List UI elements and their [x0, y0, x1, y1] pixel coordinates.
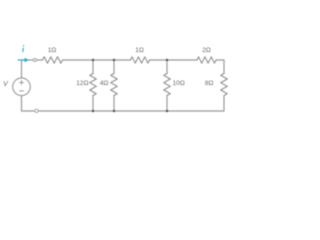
- resistor R6 10ohm vertical zigzag: [164, 74, 171, 96]
- wire top left vertical from node to source: [21, 60, 23, 78]
- wire 12ohm top stub: [92, 60, 94, 74]
- resistor R2 1ohm horizontal zigzag: [131, 57, 150, 63]
- wire top between R3 and right corner: [216, 59, 224, 61]
- wire right vertical bottom stub: [223, 96, 225, 112]
- wire top between R1 and node B: [63, 59, 131, 61]
- voltage source V circle: [13, 78, 31, 96]
- node top 12ohm: [92, 59, 94, 61]
- svg-text:12Ω: 12Ω: [76, 80, 88, 87]
- voltage source plus sign: [19, 80, 24, 85]
- svg-text:2Ω: 2Ω: [202, 47, 211, 54]
- svg-text:10Ω: 10Ω: [173, 80, 185, 87]
- svg-text:V: V: [3, 81, 9, 88]
- voltage source minus sign: [19, 90, 24, 92]
- wire top horizontal left segment: [22, 59, 43, 61]
- wire 4ohm bottom stub: [113, 96, 115, 112]
- node top 4ohm: [113, 59, 115, 61]
- junction node dots: [92, 59, 168, 112]
- wire 10ohm top stub: [166, 60, 168, 74]
- wire bottom rail: [22, 110, 225, 112]
- resistor R3 2ohm horizontal zigzag: [197, 57, 216, 63]
- svg-text:4Ω: 4Ω: [100, 80, 109, 87]
- wire 12ohm bottom stub: [92, 96, 94, 112]
- node bottom 10ohm: [166, 110, 168, 112]
- svg-text:8Ω: 8Ω: [205, 80, 214, 87]
- node bottom 12ohm: [92, 110, 94, 112]
- resistor R7 8ohm vertical zigzag: [221, 74, 228, 96]
- current arrow i: [18, 58, 29, 63]
- terminal circle top: [33, 59, 36, 62]
- node top 10ohm: [166, 59, 168, 61]
- svg-text:1Ω: 1Ω: [48, 47, 57, 54]
- resistor R1 1ohm horizontal zigzag: [43, 57, 63, 63]
- resistor R4 12ohm vertical zigzag: [90, 74, 97, 96]
- label i: [22, 46, 25, 52]
- wire 10ohm bottom stub: [166, 96, 168, 112]
- wire source bottom to bottom rail: [21, 96, 23, 111]
- wire 4ohm top stub: [113, 60, 115, 74]
- svg-text:1Ω: 1Ω: [135, 47, 144, 54]
- wire top between R2 and corner: [150, 59, 198, 61]
- terminal circle bottom: [35, 109, 38, 112]
- node bottom 4ohm: [113, 110, 115, 112]
- resistor R5 4ohm vertical zigzag: [111, 74, 118, 96]
- wire right vertical top stub: [223, 60, 225, 74]
